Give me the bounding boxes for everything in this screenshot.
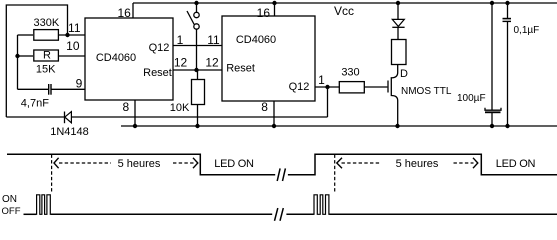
svg-text:1: 1 [177, 33, 184, 47]
svg-text:R: R [43, 50, 51, 62]
svg-text:Q12: Q12 [289, 81, 310, 93]
svg-text:15K: 15K [36, 63, 56, 75]
svg-text:Q12: Q12 [149, 42, 170, 54]
svg-text:Reset: Reset [226, 63, 255, 75]
svg-text:ON: ON [2, 194, 17, 205]
svg-text:LED ON: LED ON [496, 158, 536, 170]
svg-text:5 heures: 5 heures [118, 158, 161, 170]
svg-text:LED ON: LED ON [214, 158, 254, 170]
svg-text:9: 9 [76, 77, 83, 91]
svg-text:330: 330 [341, 67, 359, 79]
svg-text:12: 12 [174, 56, 188, 70]
svg-text:4,7nF: 4,7nF [21, 97, 49, 109]
svg-text:8: 8 [122, 100, 129, 114]
svg-text:Vcc: Vcc [334, 4, 354, 18]
svg-text:CD4060: CD4060 [236, 34, 276, 46]
svg-text:11: 11 [68, 21, 81, 35]
svg-text:10: 10 [66, 39, 80, 53]
svg-text:10K: 10K [170, 102, 190, 114]
svg-text:D: D [400, 68, 408, 80]
svg-text:16: 16 [257, 6, 271, 20]
svg-text:NMOS TTL: NMOS TTL [401, 86, 452, 97]
svg-text:OFF: OFF [2, 206, 21, 217]
svg-text:1N4148: 1N4148 [50, 126, 89, 138]
svg-text:11: 11 [207, 33, 220, 47]
svg-text:12: 12 [205, 56, 219, 70]
svg-text:330K: 330K [34, 17, 60, 29]
svg-text:5 heures: 5 heures [396, 158, 439, 170]
svg-text:16: 16 [117, 6, 131, 20]
svg-text:1: 1 [318, 73, 325, 87]
svg-text:100µF: 100µF [457, 93, 486, 104]
svg-text:8: 8 [261, 100, 268, 114]
svg-text:CD4060: CD4060 [96, 52, 136, 64]
svg-text:Reset: Reset [143, 67, 172, 79]
svg-text:0,1µF: 0,1µF [514, 25, 540, 36]
